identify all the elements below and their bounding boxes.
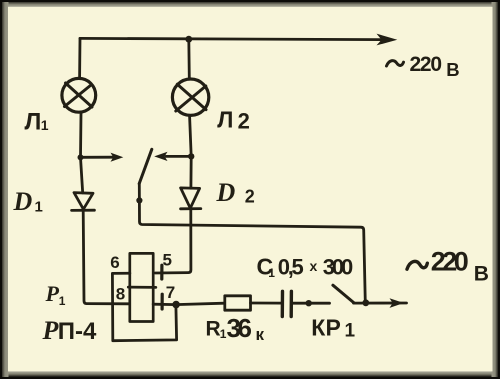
svg-text:1: 1	[59, 294, 66, 308]
svg-text:КР: КР	[311, 314, 341, 340]
svg-text:Л: Л	[217, 107, 233, 133]
svg-text:В: В	[446, 59, 459, 80]
svg-text:7: 7	[166, 283, 175, 302]
svg-text:к: к	[256, 325, 265, 344]
svg-text:P: P	[45, 281, 60, 306]
svg-text:2: 2	[238, 109, 250, 134]
svg-text:1: 1	[35, 199, 43, 216]
svg-text:D: D	[216, 178, 236, 207]
svg-text:В: В	[474, 263, 489, 286]
svg-text:6: 6	[110, 253, 119, 272]
svg-text:1: 1	[345, 321, 356, 342]
svg-text:1: 1	[268, 266, 275, 280]
svg-text:5: 5	[163, 251, 172, 270]
svg-text:300: 300	[323, 254, 354, 279]
svg-text:8: 8	[116, 284, 125, 303]
svg-text:П-4: П-4	[58, 318, 97, 345]
svg-text:2: 2	[245, 187, 255, 207]
svg-text:1: 1	[41, 117, 49, 133]
svg-text:R: R	[206, 317, 221, 340]
svg-text:P: P	[42, 316, 60, 345]
svg-text:Л: Л	[25, 109, 42, 136]
svg-text:0,5: 0,5	[278, 255, 304, 280]
svg-text:220: 220	[431, 247, 469, 277]
svg-text:x: x	[310, 258, 318, 274]
svg-text:D: D	[13, 187, 33, 216]
svg-text:220: 220	[410, 53, 443, 76]
svg-text:36: 36	[227, 313, 253, 343]
